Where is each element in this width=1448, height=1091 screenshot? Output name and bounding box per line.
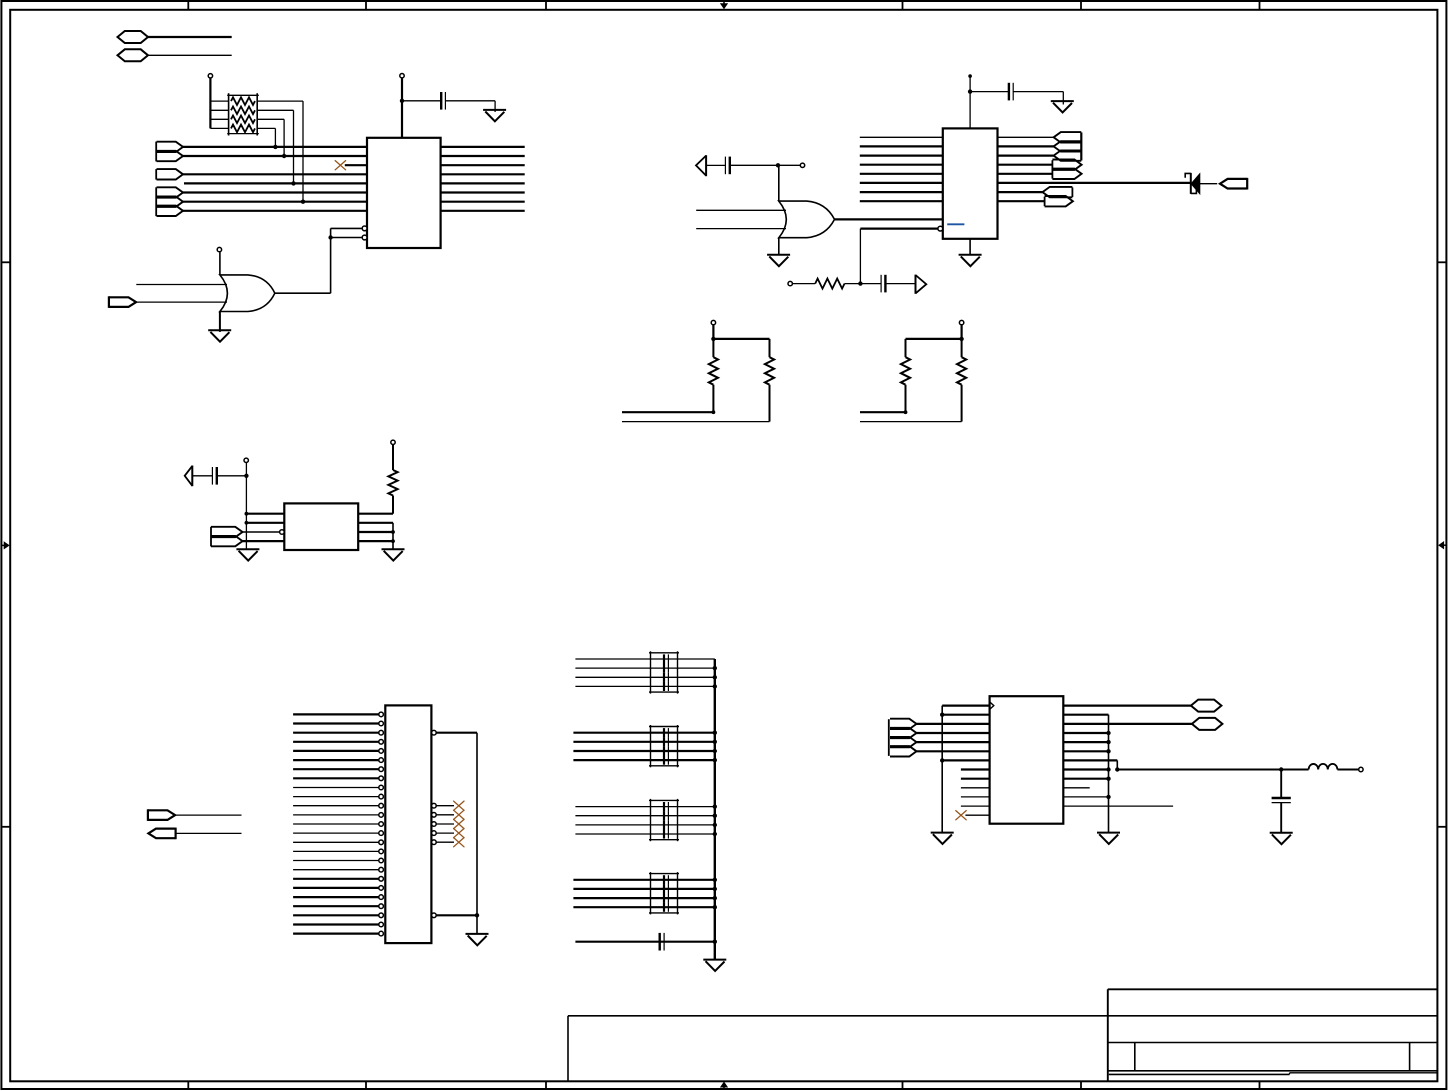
pin circle R6 top	[391, 440, 395, 444]
wire PU-A horizontal	[713, 338, 769, 340]
wire PU-B horizontal	[906, 338, 962, 340]
wire U4 out row 10	[1063, 787, 1089, 789]
border zone ticks bottom	[188, 1081, 1259, 1089]
wire PU-A vertical	[712, 325, 714, 339]
pin bubble J1 right row 3	[432, 730, 437, 735]
bus entry arrow row 2	[157, 151, 184, 161]
junction dot	[713, 832, 717, 836]
bus entry arrow row 4	[157, 169, 184, 179]
junction dot	[713, 675, 717, 679]
junction dot	[713, 731, 717, 735]
wire CP3 row 1	[575, 806, 714, 808]
wire U4 left vertical to ground	[941, 706, 943, 833]
junction dot	[245, 512, 249, 516]
wire to C7	[1280, 770, 1282, 799]
pin dot U2 VCC	[968, 74, 972, 78]
center marker arrow bottom	[721, 1082, 727, 1090]
junction dot	[711, 337, 715, 341]
capacitor pack CP3 box	[649, 799, 679, 841]
wire U1 pin row 6	[183, 191, 367, 193]
wire L1 to pin	[1337, 769, 1358, 771]
wire U4 row 5	[917, 741, 990, 743]
title block divider A	[1134, 1043, 1136, 1071]
bus exit arrow row 8 bracket	[1044, 197, 1046, 207]
bus entry arrow row 4	[211, 536, 243, 546]
capacitor CP4-4	[664, 903, 668, 912]
bus entry arrows bracket U4	[888, 719, 890, 756]
wire CP4 row 2	[573, 888, 714, 890]
capacitor CP1-3	[664, 673, 668, 682]
bus entry arrow row 8	[157, 206, 184, 216]
junction dot	[1106, 777, 1110, 781]
title block line 2	[1108, 1042, 1438, 1044]
wire U3 out row 3	[358, 531, 393, 533]
wire U1 pin row 5	[184, 182, 367, 184]
ground	[959, 255, 982, 266]
wire U4 out row 9	[1063, 778, 1108, 780]
wire G1 input B	[136, 301, 227, 303]
wire U3 pin row 2	[246, 522, 284, 524]
capacitor CP4-3	[664, 894, 668, 903]
off-page connector P3	[1191, 700, 1222, 712]
capacitor CP2-1	[664, 728, 668, 737]
wire from P1	[148, 36, 232, 38]
bus entry arrow U4 row 6	[890, 746, 917, 756]
wire to pin circle	[778, 164, 800, 166]
wire RP1-C to bus row 2	[257, 119, 284, 156]
ground bus vertical	[714, 659, 716, 960]
off-page connector P2	[118, 49, 149, 61]
capacitor CP2-3	[664, 746, 668, 755]
bus exit arrow row 3	[1054, 150, 1082, 160]
wire junction to C5	[217, 475, 246, 477]
wire C4 to arrow	[885, 283, 915, 285]
wire CP4 row 3	[573, 897, 714, 899]
wire OR1 output	[275, 238, 331, 294]
junction dot	[968, 89, 972, 93]
junction dot	[391, 539, 395, 543]
wire U4 row 3	[917, 723, 990, 725]
junction dot	[400, 99, 404, 103]
capacitor CP3-1	[664, 802, 668, 811]
junction dot	[713, 896, 717, 900]
junction dot	[713, 740, 717, 744]
wire C1 to ground	[445, 101, 495, 112]
wire CP1 row 4	[575, 685, 714, 687]
bus exit arrow row 5	[1052, 169, 1081, 179]
junction dot	[713, 887, 717, 891]
junction dot	[244, 474, 248, 478]
wire CP3 row 2	[575, 815, 714, 817]
wire RP1-A to bus row 7	[257, 101, 303, 202]
resistor R1	[815, 279, 844, 289]
junction dot	[1106, 740, 1110, 744]
pin circle L1 out	[1359, 767, 1363, 771]
wire RP1 input row 3	[210, 118, 228, 120]
wire C3 to junction	[730, 164, 778, 166]
wire VCC to C1	[402, 100, 441, 102]
junction dot	[713, 814, 717, 818]
title block box	[1108, 989, 1438, 1081]
junction dot	[959, 337, 963, 341]
bus exit arrow row 2	[1054, 141, 1082, 151]
junction dot	[940, 713, 944, 717]
IC U4	[990, 696, 1064, 824]
IC U3	[284, 503, 358, 550]
inverted pin bubble U2-EN	[938, 226, 943, 231]
junction dot	[282, 154, 286, 158]
junction dot	[713, 666, 717, 670]
revision box	[568, 1016, 1437, 1082]
resistor R6	[388, 445, 397, 496]
wire RP1-B to bus row 5	[257, 110, 293, 183]
junction dot	[1115, 767, 1119, 771]
junction dot	[713, 804, 717, 808]
wire G2 bottom pin	[778, 238, 780, 255]
wire PU-A net 2	[622, 421, 770, 423]
ground	[1097, 833, 1120, 844]
center marker arrow top	[721, 1, 727, 8]
ground	[382, 549, 405, 560]
bus entry arrows group 2 bracket	[155, 187, 157, 216]
wire U2 out row 3	[998, 155, 1054, 157]
resistor pack RP1 box	[227, 93, 259, 135]
wire U4 row 1	[942, 704, 989, 706]
bus exit arrow row 8	[1045, 196, 1073, 206]
inverted pin bubble U1-OE2	[362, 235, 367, 240]
wire U4 out row 6	[1063, 750, 1108, 752]
wire U4 row 10	[961, 787, 990, 789]
wire RP1 input row 1	[210, 100, 228, 102]
wires U2 input rows	[860, 137, 943, 201]
resistor R4	[901, 339, 910, 412]
resistor RP1-A	[231, 97, 255, 105]
wire filter net	[1117, 769, 1308, 771]
off-page connector P4	[1192, 718, 1223, 730]
wire R1 to junction	[845, 283, 881, 285]
wire U4 row 8	[961, 768, 990, 770]
wire U1 pin row 2	[183, 155, 367, 157]
wire RP1 input row 4	[210, 127, 228, 129]
wire OR2 output to U2	[835, 218, 943, 220]
wire OE2	[331, 237, 363, 239]
wire U2 EN	[860, 229, 938, 284]
wire D1 to port	[1200, 183, 1218, 185]
ground	[767, 255, 790, 266]
wire U4 out row 2	[1063, 714, 1108, 716]
center marker arrow left	[1, 542, 8, 548]
wire U4 out row 12	[1063, 805, 1173, 807]
wire U3 pin row 1	[246, 513, 284, 515]
junction dot	[713, 758, 717, 762]
ground	[703, 960, 726, 971]
pin circle RP1 supply	[208, 74, 212, 78]
port connector PL2	[1220, 178, 1247, 190]
wire U4 row 9	[961, 778, 990, 780]
capacitor pack CP4 box	[649, 872, 679, 914]
wire RP1-D to bus row 1	[257, 128, 275, 147]
junction dot	[713, 823, 717, 827]
wire U4 row 4	[917, 732, 990, 734]
wire J1 right row 3	[436, 733, 477, 934]
bus exit arrow row 7	[1043, 187, 1073, 197]
pin circle U3 VCC	[244, 458, 248, 462]
power arrow VCC left	[185, 466, 193, 487]
junction dot	[273, 145, 277, 149]
wire C5 to arrow	[192, 475, 212, 477]
wire CP1 row 1	[575, 658, 714, 660]
wire to R1	[792, 283, 815, 285]
wire VCC arrow to C3	[706, 164, 725, 166]
pin circle G1 top	[217, 247, 221, 251]
capacitor C1	[441, 92, 445, 110]
capacitor CP1-2	[664, 664, 668, 673]
bus entry arrow row 4 bracket	[155, 169, 157, 180]
wire C2 to ground	[1013, 92, 1063, 105]
junction dot	[712, 410, 716, 414]
wire CP4 row 4	[573, 906, 714, 908]
inverted pin bubble U3	[280, 530, 285, 535]
wire U2 out row 5	[998, 173, 1053, 175]
wire U2 VCC vertical	[969, 76, 971, 128]
wire U3 pin row 4	[243, 540, 285, 542]
capacitor C4	[881, 275, 885, 293]
bus entry arrow row 3	[211, 527, 243, 537]
wire PU-B vertical	[960, 325, 962, 339]
select line mark (blue)	[947, 223, 964, 225]
diode D1 (schottky)	[1185, 173, 1199, 194]
bus entry arrows bracket	[210, 527, 212, 547]
bus entry arrow U4 row 3	[890, 719, 917, 729]
capacitor C2	[1009, 83, 1013, 101]
title block divider B	[1409, 1043, 1411, 1071]
bus exit arrow row 1	[1054, 132, 1082, 142]
wire CP3 row 3	[575, 824, 714, 826]
junction dot	[858, 281, 862, 285]
wire CP2 row 2	[573, 741, 714, 743]
wire G2 input B	[696, 228, 786, 230]
power arrow right	[916, 275, 927, 294]
pin circle R-C input	[788, 281, 792, 285]
junction dot	[1106, 767, 1110, 771]
bus entry arrow U4 row 4	[890, 728, 917, 738]
capacitor CP1-1	[664, 654, 668, 663]
resistor RP1-B	[231, 107, 255, 115]
border zone ticks left	[1, 262, 10, 827]
wire U1 pin row 1	[183, 146, 367, 148]
junction dot	[1106, 795, 1110, 799]
ground	[931, 833, 954, 844]
wire U4 out row 5	[1063, 741, 1108, 743]
wire U2 out row 6 to diode	[998, 182, 1191, 184]
port connector PR1	[109, 296, 136, 308]
capacitor pack CP2 box	[649, 725, 679, 767]
junction dot	[1279, 767, 1283, 771]
wire U1 VCC vertical	[401, 78, 403, 138]
junction dot	[713, 749, 717, 753]
junction dot	[713, 684, 717, 688]
wire U2 out row 4	[998, 164, 1053, 166]
wire G1 bottom pin	[219, 312, 221, 332]
junction dot	[301, 200, 305, 204]
inductor L1	[1309, 764, 1338, 770]
wire U4 row 6	[917, 750, 990, 752]
center marker arrow right	[1439, 542, 1446, 548]
connector J1	[385, 705, 431, 943]
pin circle PU-A supply	[711, 320, 715, 324]
resistor RP1-C	[231, 116, 255, 124]
wire VCC to C2	[970, 91, 1009, 93]
wire U4 out row 7	[1063, 760, 1117, 769]
bus entry arrow row 7	[157, 197, 184, 207]
wire U3 out row 1	[358, 496, 393, 514]
pin circle PU-B supply	[959, 320, 963, 324]
bus entry arrow row 1	[157, 142, 184, 152]
wire U4 out row 1	[1063, 704, 1191, 706]
wire from PL4	[176, 832, 242, 834]
capacitor C5	[212, 467, 216, 485]
wire RP1 input row 2	[210, 109, 228, 111]
wire CP2 row 1	[573, 732, 714, 734]
wire U2 GND pin	[969, 239, 971, 255]
capacitor C6	[660, 933, 664, 951]
capacitor C3	[725, 157, 729, 175]
wire U1 pin row 4	[183, 173, 367, 175]
wire G1 input A	[136, 284, 227, 286]
pin circle G2 ctrl	[800, 163, 804, 167]
junction dot	[475, 913, 479, 917]
title block line 3	[1108, 1070, 1438, 1072]
junction dot	[1106, 749, 1110, 753]
border zone ticks top	[188, 1, 1259, 10]
junction dot	[291, 181, 295, 185]
wire PU-A net 1	[622, 411, 713, 413]
wire C6 row	[575, 941, 714, 943]
or-gate G1	[220, 275, 275, 312]
pin bubble J1 right row 23	[432, 913, 437, 918]
wire U4 out row 4	[1063, 732, 1108, 734]
resistor R2	[709, 339, 718, 412]
bus exit arrow row 4	[1052, 160, 1081, 170]
wire U2 out row 1	[998, 136, 1054, 138]
port connector PR3	[148, 809, 175, 821]
pin bubbles J1 left	[379, 712, 384, 936]
ground	[466, 934, 489, 945]
power arrow VCC left	[696, 155, 706, 176]
capacitor CP1-4	[664, 682, 668, 691]
capacitor CP2-4	[664, 756, 668, 765]
no-connect X on U1 row 3	[335, 161, 345, 170]
wire U4 out row 8	[1063, 768, 1108, 770]
ground	[1270, 833, 1293, 844]
capacitor CP4-1	[664, 875, 668, 884]
wire U4 right vertical to ground	[1108, 715, 1110, 833]
wire PU-B net 1	[860, 411, 906, 413]
wire CP1 row 3	[575, 676, 714, 678]
wire U4 row 11	[961, 796, 990, 798]
ground	[483, 110, 506, 121]
junction dot	[904, 410, 908, 414]
wire CP2 row 3	[573, 750, 714, 752]
wire PU-B net 2	[860, 421, 962, 423]
wire C7 to ground	[1280, 803, 1282, 833]
wire G2 top pin	[778, 165, 780, 201]
wire U1 pin row 8	[183, 210, 367, 212]
wire RP1 supply vertical	[209, 78, 211, 128]
wires J1 left pins	[293, 714, 379, 933]
wire U4 row 7	[942, 759, 989, 761]
junction dot	[713, 878, 717, 882]
junction dot	[245, 521, 249, 525]
bus entry arrow U4 row 5	[890, 737, 917, 747]
wire U2 out row 7	[998, 191, 1043, 193]
ground	[1051, 101, 1074, 112]
capacitor pack CP1 box	[649, 651, 679, 693]
wire U4 row 13	[965, 814, 989, 816]
junction dot	[776, 163, 780, 167]
wire U3 pin row 3	[243, 531, 280, 533]
IC U1	[367, 138, 441, 248]
wire from P2	[148, 54, 232, 56]
capacitor CP4-2	[664, 884, 668, 893]
bus entry arrow row 6	[157, 187, 184, 197]
off-page connector P1	[118, 31, 149, 43]
no-connect pins J1 right	[432, 801, 464, 847]
resistor R3	[765, 339, 774, 422]
no-connect X on U4 row 13	[956, 811, 966, 820]
wire U1 pin row 3	[345, 164, 367, 166]
or-gate G2	[779, 201, 835, 238]
wire CP2 row 4	[573, 759, 714, 761]
junction dot	[391, 530, 395, 534]
title block bottom bar	[1109, 1073, 1438, 1075]
resistor R5	[957, 339, 966, 422]
ground	[208, 330, 231, 341]
bus exit arrows bracket right	[1080, 132, 1082, 160]
wire U2 out row 8	[998, 200, 1045, 202]
border zone ticks right	[1437, 262, 1446, 827]
wire CP4 row 1	[573, 879, 714, 881]
wire U3 out row 4	[358, 540, 393, 542]
bus entry arrows group 1 bracket	[155, 142, 157, 162]
wire U4 out row 3	[1063, 723, 1192, 725]
junction dot	[1106, 731, 1110, 735]
IC U2	[943, 128, 998, 238]
wire U4 row 12	[961, 805, 990, 807]
wire U1 pin row 7	[183, 201, 367, 203]
capacitor C7	[1272, 798, 1291, 803]
wire OE1	[331, 228, 363, 237]
wire G2 input A	[696, 209, 786, 211]
wire from PR3	[175, 814, 241, 816]
wire U3 VCC vertical	[245, 463, 247, 550]
clock mark U4	[990, 702, 994, 710]
pin circle U1 VCC	[400, 74, 404, 78]
wire U4 out row 11	[1063, 796, 1108, 798]
junction dot	[328, 235, 332, 239]
wires U1 output rows right	[441, 147, 525, 211]
wire CP3 row 4	[575, 833, 714, 835]
junction dot	[713, 905, 717, 909]
junction dot	[713, 940, 717, 944]
wire U3 out row 2	[358, 523, 393, 549]
wire U2 out row 2	[998, 145, 1054, 147]
resistor RP1-D	[231, 125, 255, 133]
bus exit arrow row 7 bracket	[1071, 187, 1073, 197]
junction dot	[940, 758, 944, 762]
bus exit arrows bracket left	[1051, 160, 1053, 178]
capacitor CP3-3	[664, 820, 668, 829]
